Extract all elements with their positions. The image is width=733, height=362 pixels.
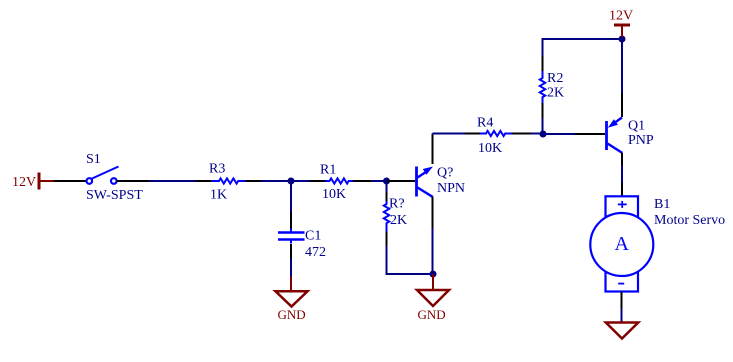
wire: R4 right pin: [512, 133, 531, 135]
transistor Q? NPN: [417, 167, 434, 197]
wire: R4 left pin: [465, 133, 480, 135]
svg-text:Motor Servo: Motor Servo: [654, 213, 725, 228]
svg-text:R1: R1: [320, 163, 336, 178]
wire: collector up to R4: [433, 133, 466, 135]
wire: C1 top pin: [290, 212, 292, 229]
wire: R? top pin: [386, 192, 388, 201]
svg-text:C1: C1: [305, 229, 321, 244]
svg-text:Q1: Q1: [628, 119, 645, 134]
wire: R3 right pin: [245, 180, 261, 182]
wire: C1 bottom pin: [290, 244, 292, 259]
power port 12V (left): [12, 173, 54, 191]
svg-text:12V: 12V: [609, 9, 633, 24]
wire: motor top pin: [621, 183, 623, 197]
wire: R? bottom pin: [386, 232, 388, 246]
svg-text:S1: S1: [86, 152, 101, 167]
svg-text:2K: 2K: [390, 213, 407, 228]
wire: R1 left pin: [310, 180, 326, 182]
wire: motor bottom pin: [621, 292, 623, 309]
wire: motor to ground: [621, 308, 623, 322]
capacitor C1: [278, 229, 305, 244]
wire: C1 to ground: [290, 259, 292, 277]
wire: R1 to base node: [372, 180, 387, 182]
ground (below motor): [606, 323, 639, 339]
svg-text:472: 472: [305, 245, 326, 260]
svg-text:PNP: PNP: [628, 133, 654, 148]
ground (below NPN): [417, 274, 449, 322]
wire: node to Q1 base: [543, 133, 575, 135]
wire: top rail R2 to 12V: [542, 38, 623, 40]
resistor R2: [540, 71, 545, 103]
ground (below C1): [276, 277, 308, 322]
wire: R2 top: [542, 39, 544, 56]
svg-text:10K: 10K: [478, 141, 502, 156]
wire: Q1 collector pin: [621, 153, 623, 166]
wire: power port to switch S1: [54, 180, 87, 182]
wire: R3 left pin: [196, 180, 212, 182]
svg-text:R4: R4: [477, 116, 493, 131]
wire: R2 bottom pin: [542, 103, 544, 118]
wire: R1 right pin: [353, 180, 372, 182]
wire: NPN base pin: [387, 180, 416, 182]
wire: junction down to R?: [386, 181, 388, 192]
wire: Q1 base pin: [575, 133, 605, 135]
wire: switch to R3: [150, 180, 196, 182]
wire: R4 to R2 node: [531, 133, 544, 135]
wire: Q1 to motor: [621, 165, 623, 183]
node: junction at NPN base / R?: [383, 178, 390, 185]
svg-text:1K: 1K: [210, 188, 227, 203]
svg-text:12V: 12V: [12, 175, 36, 190]
svg-text:NPN: NPN: [437, 181, 465, 196]
node: junction at C1 branch: [288, 178, 295, 185]
resistor R4: [480, 131, 512, 136]
motor B1 (Motor Servo): [590, 196, 653, 291]
wire: R3 to node C1: [261, 180, 291, 182]
wire: junction down to C1: [290, 181, 292, 212]
wire: NPN collector pin: [432, 134, 434, 165]
svg-text:2K: 2K: [547, 86, 564, 101]
svg-text:B1: B1: [654, 197, 670, 212]
resistor R3: [212, 178, 246, 183]
svg-text:10K: 10K: [322, 187, 346, 202]
svg-text:A: A: [615, 233, 630, 255]
wire: 12V node down to Q1 emitter: [621, 39, 623, 93]
wire: emitter to ground junction: [432, 228, 434, 274]
switch S1 SW-SPST: [87, 167, 119, 184]
node: junction top rail / 12V: [619, 36, 626, 43]
wire: R2 bottom to node: [542, 118, 544, 134]
svg-text:GND: GND: [278, 307, 306, 322]
wire: R? to emitter junction: [387, 245, 434, 274]
svg-text:SW-SPST: SW-SPST: [86, 188, 143, 203]
wire: NPN emitter pin: [432, 197, 434, 229]
transistor Q1 PNP: [607, 118, 623, 153]
svg-text:R?: R?: [389, 197, 405, 212]
svg-text:R2: R2: [547, 71, 563, 86]
wire: node to R1: [291, 180, 310, 182]
svg-text:GND: GND: [418, 307, 446, 322]
resistor R1: [325, 178, 353, 183]
resistor R?: [384, 201, 389, 232]
node: junction R4/R2/base: [540, 131, 547, 138]
node: junction emitter/ground: [430, 271, 437, 278]
svg-text:R3: R3: [209, 162, 225, 177]
power port 12V (top): [609, 9, 633, 38]
wire: switch right pin (black): [117, 180, 150, 182]
wire: Q1 emitter pin: [621, 93, 623, 117]
svg-text:Q?: Q?: [437, 166, 453, 181]
wire: R2 top pin: [542, 56, 544, 71]
